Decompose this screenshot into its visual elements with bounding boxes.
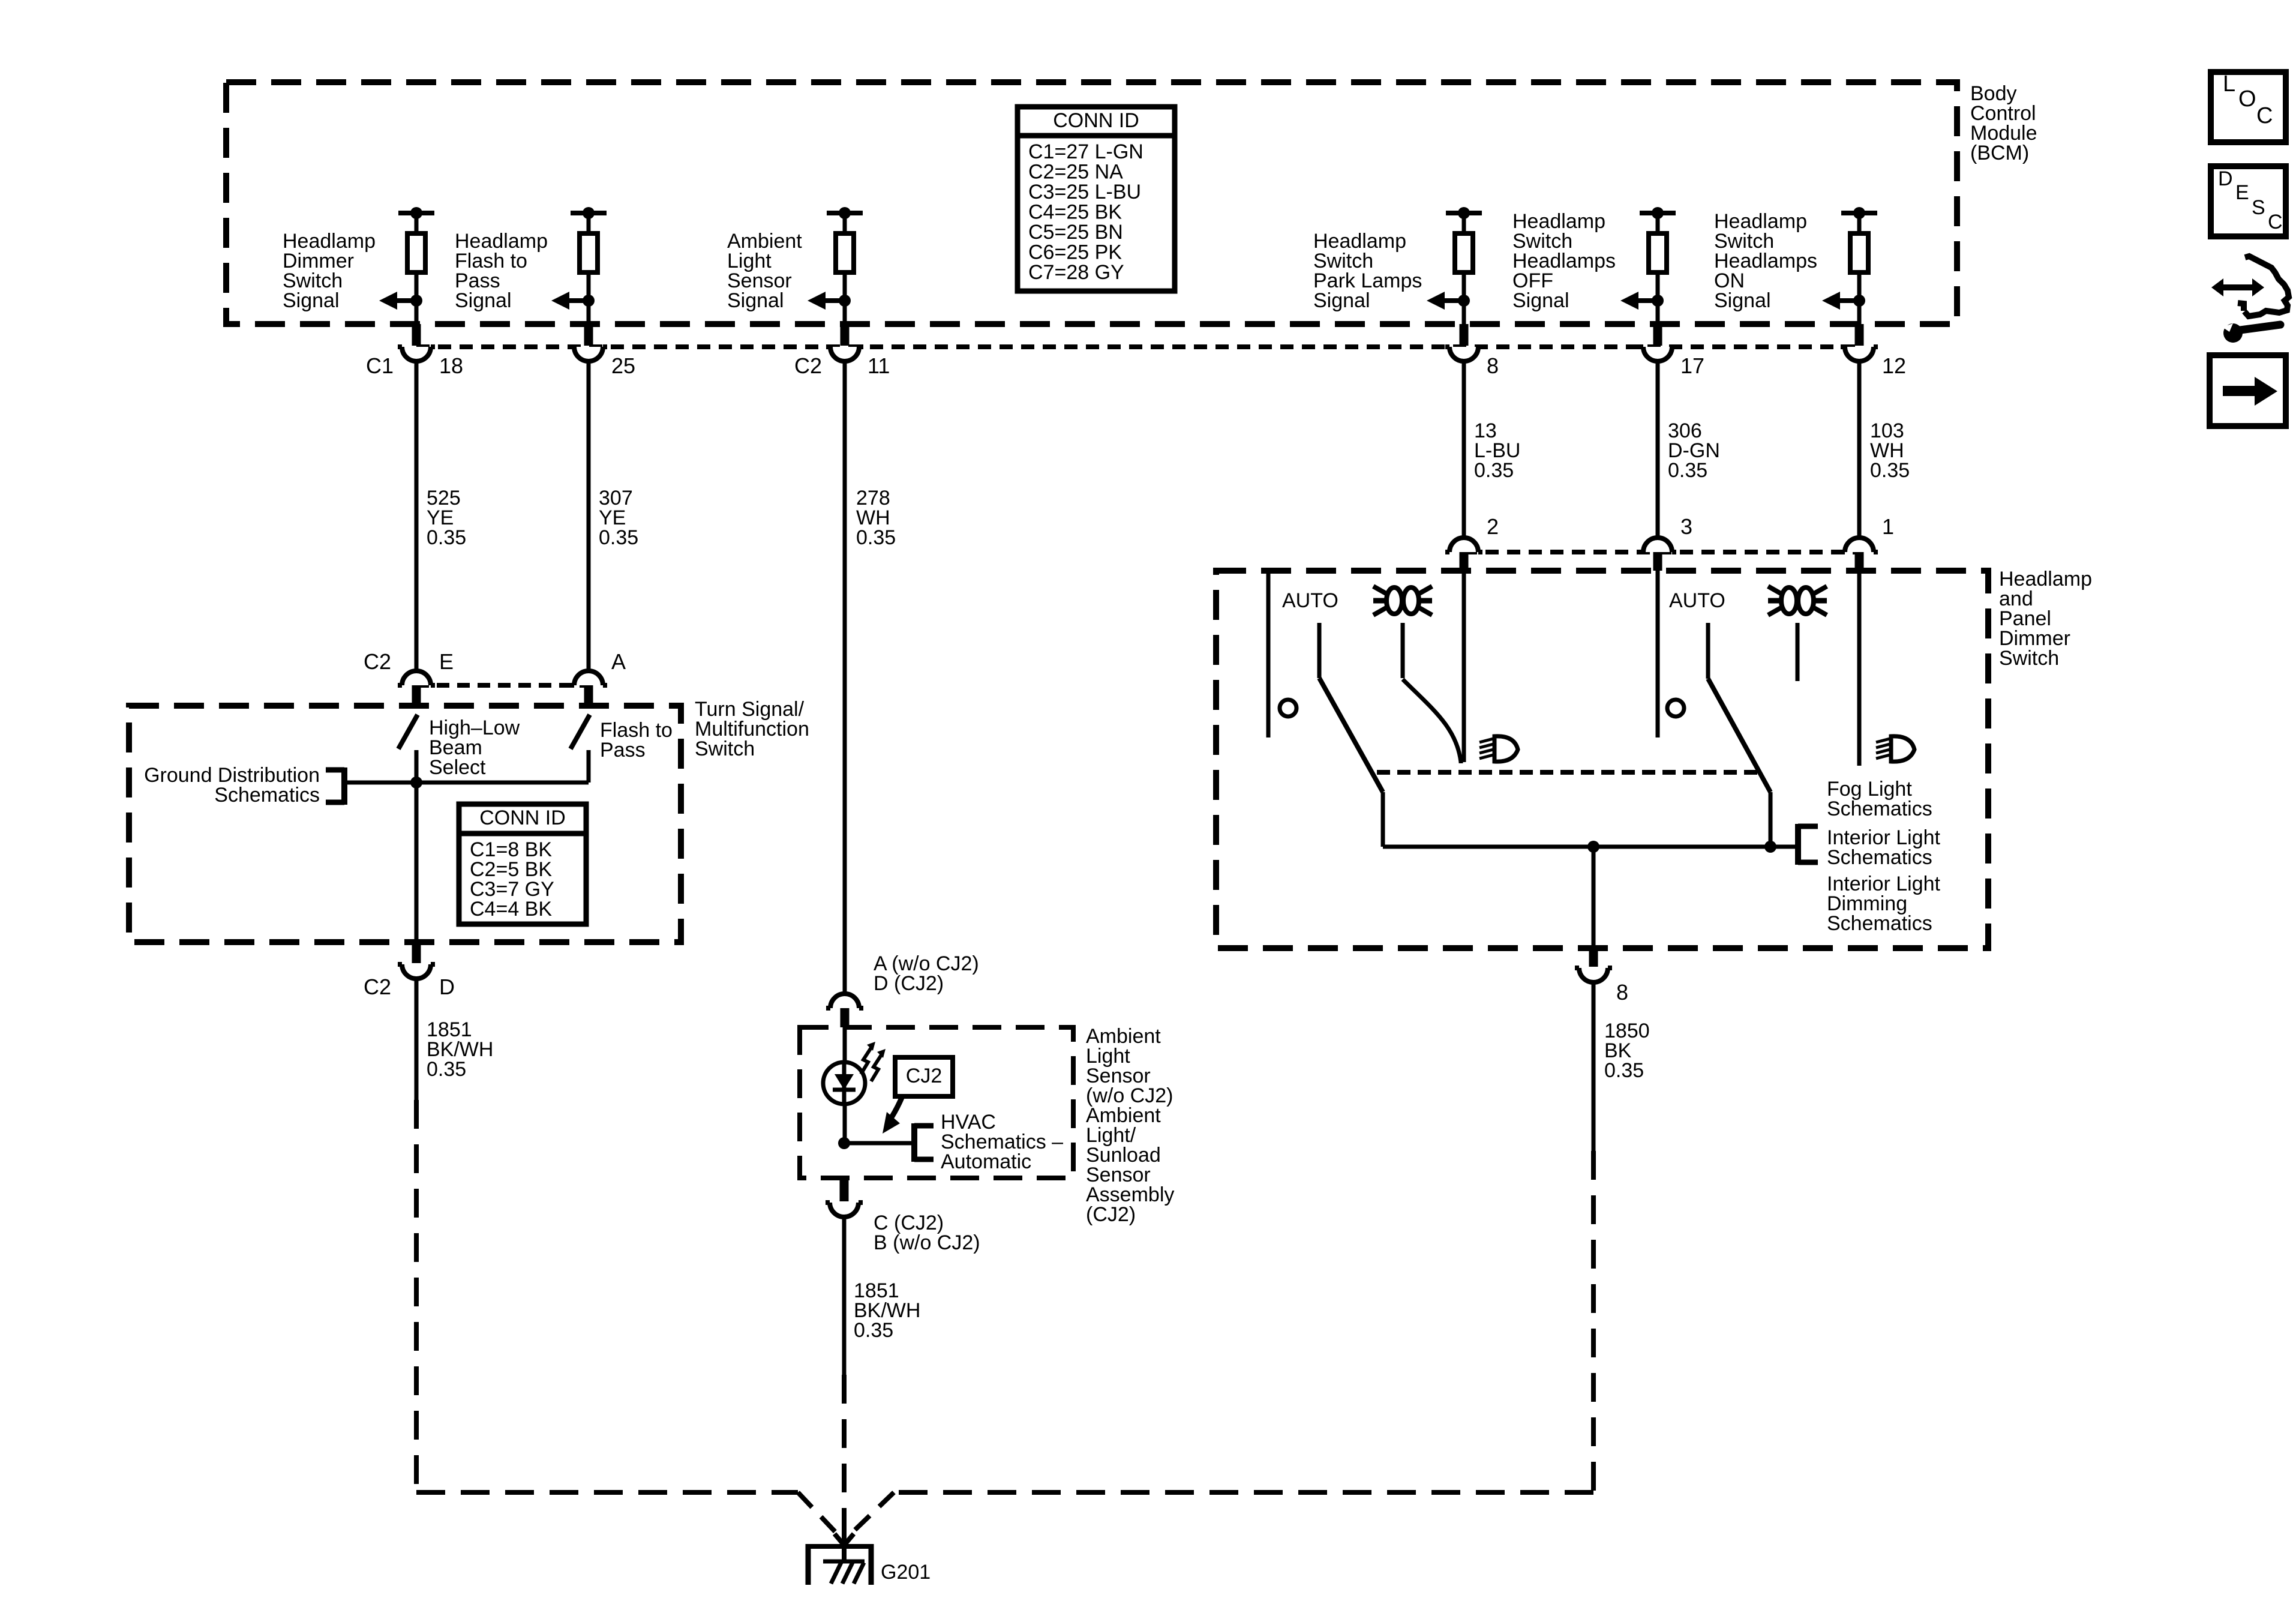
AUTO contact post (left) <box>1317 623 1322 678</box>
svg-text:(CJ2): (CJ2) <box>1086 1203 1136 1226</box>
connector pin 18 at BCM bottom <box>398 324 435 361</box>
park lamps contact stub (left) <box>1401 623 1405 678</box>
svg-text:8: 8 <box>1616 980 1628 1005</box>
connector pin 17 at BCM bottom <box>1639 324 1676 361</box>
svg-text:C2=25 NA: C2=25 NA <box>1028 161 1123 184</box>
label: Turn Signal/Multifunction Switch <box>695 698 809 760</box>
svg-text:AUTO: AUTO <box>1669 589 1725 612</box>
wire: flash to pass lower contact <box>587 750 591 782</box>
svg-text:0.35: 0.35 <box>854 1319 893 1342</box>
Ambient Light Sensor dashed box <box>800 1027 1073 1178</box>
CONN ID table (multifunction switch connectors) <box>459 804 586 924</box>
connector pin 8 (below dimmer switch) <box>1575 948 1612 982</box>
svg-text:C2: C2 <box>364 975 391 999</box>
next-page arrow icon box <box>2210 355 2286 426</box>
svg-text:D (CJ2): D (CJ2) <box>874 972 944 995</box>
svg-text:D: D <box>439 975 455 999</box>
label: Headlamp Switch Headlamps ON Signal <box>1714 210 1817 312</box>
off-page bracket: Interior Light Schematics <box>1798 824 1818 865</box>
label: High-Low Beam Select <box>429 716 520 779</box>
dotted connector face line (C2 E-A) <box>416 683 589 688</box>
svg-text:Signal: Signal <box>1512 289 1569 312</box>
CONN ID table (BCM connectors) <box>1018 107 1175 291</box>
signal tap arrow (headlamp flash to pass signal) <box>551 292 595 310</box>
park lamps icon (left) <box>1373 586 1432 615</box>
switch blade: flash to pass <box>571 715 590 749</box>
pin label 8 <box>1487 353 1499 378</box>
svg-text:Schematics: Schematics <box>1827 846 1932 869</box>
svg-text:11: 11 <box>868 353 890 378</box>
label: AUTO (left) <box>1282 589 1338 612</box>
svg-text:Signal: Signal <box>283 289 340 312</box>
label: Flash to Pass <box>600 719 673 761</box>
svg-text:E: E <box>2235 181 2249 204</box>
signal tap arrow (headlamp switch headlamps on signal) <box>1822 292 1865 310</box>
signal tap arrow (headlamp switch headlamps off signal) <box>1620 292 1664 310</box>
vehicle diagnostic icon (car outline, double arrow, wrench) <box>2211 256 2289 343</box>
label: Ground Distribution Schematics <box>144 764 320 806</box>
resistor (headlamp switch headlamps off signal) <box>1640 207 1676 324</box>
wire 307 YE 0.35 <box>589 361 638 671</box>
svg-text:12: 12 <box>1882 353 1906 378</box>
DESC icon box <box>2211 166 2286 236</box>
label: Fog Light Schematics <box>1827 778 1932 820</box>
svg-text:Switch: Switch <box>1999 647 2059 670</box>
wire from collector to pin 8 <box>1592 847 1596 948</box>
ground collector wire inside dimmer switch <box>1383 845 1798 849</box>
wire 278 WH 0.35 <box>845 361 896 994</box>
wire (dashed ground run, center) <box>842 1375 847 1531</box>
switch blade (headlamps on signal) <box>1708 679 1770 847</box>
dotted connector face line (BCM bottom connectors C1/C2) <box>416 344 1859 349</box>
dimmer switch OFF contact post (pin 3) <box>1656 571 1660 737</box>
label: HVAC Schematics - Automatic <box>941 1111 1063 1173</box>
connector pin 11 at BCM bottom <box>826 324 863 361</box>
svg-text:C: C <box>2268 211 2283 233</box>
resistor (ambient light sensor signal) <box>827 207 863 324</box>
svg-text:Signal: Signal <box>455 289 512 312</box>
svg-text:Select: Select <box>429 756 486 779</box>
label: Headlamp Dimmer Switch Signal <box>283 230 376 312</box>
svg-text:17: 17 <box>1680 353 1704 378</box>
CJ2 callout box <box>895 1057 953 1096</box>
switch blade (park lamps signal) <box>1319 678 1383 847</box>
off-page bracket: HVAC Schematics - Automatic <box>914 1123 934 1162</box>
wire 13 L-BU 0.35 <box>1464 361 1520 538</box>
junction (ground wire) <box>1587 841 1599 853</box>
connector pins A (w/o CJ2) / D (CJ2) <box>826 994 863 1027</box>
wire 1850 BK 0.35 <box>1593 982 1650 1151</box>
svg-text:Switch: Switch <box>695 737 755 760</box>
off-page bracket: Ground Distribution Schematics <box>326 767 344 805</box>
Headlamp and Panel Dimmer Switch dashed box <box>1216 571 1988 948</box>
svg-text:AUTO: AUTO <box>1282 589 1338 612</box>
svg-text:0.35: 0.35 <box>427 526 466 549</box>
detent circle (left) <box>1280 700 1296 716</box>
connector pin E (turn signal/multifunction switch) <box>398 671 435 706</box>
dotted connector face line (dimmer switch pins 2/3/1) <box>1464 550 1859 554</box>
label: Headlamp Flash to Pass Signal <box>455 230 548 312</box>
CJ2 callout arrow <box>883 1096 902 1134</box>
label: Headlamp Switch Park Lamps Signal <box>1313 230 1422 312</box>
Body Control Module (BCM) dashed box <box>226 82 1957 324</box>
svg-text:C6=25 PK: C6=25 PK <box>1028 241 1122 264</box>
park lamps icon (right) <box>1768 586 1827 615</box>
wire to HVAC bracket <box>844 1141 912 1146</box>
label: Interior Light Schematics <box>1827 826 1941 869</box>
resistor (headlamp flash to pass signal) <box>571 207 607 324</box>
label: Interior Light Dimming Schematics <box>1827 873 1941 935</box>
headlamp icon (right) <box>1876 736 1914 761</box>
incident light arrows <box>861 1042 886 1081</box>
wire 306 D-GN 0.35 <box>1658 361 1720 538</box>
svg-text:C7=28 GY: C7=28 GY <box>1028 261 1124 284</box>
label: AUTO (right) <box>1669 589 1725 612</box>
park lamps contact stub (right) <box>1796 623 1800 681</box>
svg-text:A: A <box>611 649 626 674</box>
wire 525 YE 0.35 <box>416 361 466 671</box>
headlamp icon (left) <box>1479 736 1518 761</box>
resistor (headlamp switch park lamps signal) <box>1446 207 1482 324</box>
resistor (headlamp switch headlamps on signal) <box>1841 207 1877 324</box>
svg-text:C2: C2 <box>794 353 822 378</box>
pin label 12 <box>1882 353 1906 378</box>
connector pin 2 (headlamp and panel dimmer switch) <box>1445 538 1482 571</box>
headlamps contact wire (pin 2) <box>1462 571 1466 762</box>
wire 1851 BK/WH 0.35 (from dimmer switch) <box>416 979 493 1100</box>
svg-text:L: L <box>2223 71 2235 97</box>
svg-text:C2: C2 <box>364 649 391 674</box>
wire 1851 BK/WH 0.35 (sensor to ground) <box>844 1217 920 1375</box>
svg-text:D: D <box>2218 167 2233 190</box>
connector pin A (turn signal/multifunction switch) <box>570 671 607 706</box>
connector pin 3 (headlamp and panel dimmer switch) <box>1639 538 1676 571</box>
svg-text:0.35: 0.35 <box>599 526 638 549</box>
svg-text:Signal: Signal <box>1313 289 1370 312</box>
svg-text:0.35: 0.35 <box>1668 459 1707 482</box>
svg-text:CJ2: CJ2 <box>906 1065 942 1087</box>
svg-text:C5=25 BN: C5=25 BN <box>1028 221 1123 244</box>
junction (HVAC tap) <box>838 1137 850 1149</box>
signal tap arrow (headlamp dimmer switch signal) <box>379 292 422 310</box>
svg-text:2: 2 <box>1487 514 1499 539</box>
wire: high-low beam select lower contact <box>415 750 419 942</box>
svg-text:18: 18 <box>439 353 463 378</box>
signal tap arrow (headlamp switch park lamps signal) <box>1427 292 1470 310</box>
wire: ground bus inside multifunction switch <box>347 781 589 785</box>
svg-text:C4=25 BK: C4=25 BK <box>1028 201 1122 224</box>
svg-text:G201: G201 <box>881 1561 931 1584</box>
ground arrow <box>835 1531 854 1560</box>
svg-text:S: S <box>2252 196 2265 219</box>
svg-text:C3=25 L-BU: C3=25 L-BU <box>1028 181 1141 203</box>
svg-text:B (w/o CJ2): B (w/o CJ2) <box>874 1231 980 1254</box>
svg-text:0.35: 0.35 <box>1870 459 1910 482</box>
LOC icon box <box>2211 71 2286 142</box>
svg-text:C1=27 L-GN: C1=27 L-GN <box>1028 140 1144 163</box>
junction (blade to collector) <box>1764 841 1776 853</box>
svg-text:Schematics: Schematics <box>1827 797 1932 820</box>
connector pin 12 at BCM bottom <box>1841 324 1878 361</box>
svg-text:E: E <box>439 649 454 674</box>
pin label 18 <box>366 353 463 378</box>
switch blade: high-low beam select <box>398 715 418 749</box>
svg-text:3: 3 <box>1680 514 1692 539</box>
svg-text:0.35: 0.35 <box>1604 1059 1644 1082</box>
label: Ambient Light Sensor Signal <box>727 230 802 312</box>
ground symbol G201 <box>806 1544 874 1585</box>
wire (dashed ground run, right) <box>847 1151 1593 1537</box>
svg-text:0.35: 0.35 <box>1474 459 1514 482</box>
pin label 11 <box>794 353 890 378</box>
svg-text:Signal: Signal <box>727 289 784 312</box>
AUTO contact post (right) <box>1706 623 1710 679</box>
junction (ground bus / beam select) <box>410 776 422 788</box>
wiper arc (park lamps to headlamps contact) <box>1403 679 1461 763</box>
detent circle (right) <box>1667 700 1684 716</box>
svg-text:8: 8 <box>1487 353 1499 378</box>
mechanical link (dotted) between blades <box>1377 770 1758 775</box>
label: G201 <box>881 1561 931 1584</box>
svg-text:Schematics: Schematics <box>214 784 320 806</box>
svg-text:CONN ID: CONN ID <box>479 806 566 829</box>
signal tap arrow (ambient light sensor signal) <box>808 292 851 310</box>
connector pin 8 at BCM bottom <box>1445 324 1482 361</box>
svg-text:0.35: 0.35 <box>427 1058 466 1081</box>
Turn Signal/Multifunction Switch dashed box <box>129 706 681 942</box>
svg-text:O: O <box>2238 86 2256 112</box>
svg-text:25: 25 <box>611 353 635 378</box>
photodiode (ambient light sensor element) <box>823 1027 865 1143</box>
BCM label <box>1970 82 2037 164</box>
connector C2 pin D (below multifunction switch) <box>398 942 435 979</box>
svg-text:Pass: Pass <box>600 739 646 761</box>
connector pins C (CJ2) / B (w/o CJ2) <box>826 1178 863 1217</box>
pin label 17 <box>1680 353 1704 378</box>
svg-text:0.35: 0.35 <box>856 526 896 549</box>
svg-text:Schematics: Schematics <box>1827 912 1932 935</box>
wire (dashed ground run, left) <box>416 1100 841 1537</box>
connector pin 1 (headlamp and panel dimmer switch) <box>1841 538 1878 571</box>
connector pin 25 at BCM bottom <box>570 324 607 361</box>
svg-text:C: C <box>2256 103 2273 128</box>
label: Ambient Light Sensor (w/o CJ2) / Ambient Light/Sunload Sensor Assembly (CJ2) <box>1086 1025 1174 1226</box>
svg-text:CONN ID: CONN ID <box>1053 109 1139 132</box>
dimmer switch left pole (park lamps) contact post <box>1266 571 1271 737</box>
svg-text:Automatic: Automatic <box>941 1150 1031 1173</box>
headlamps on contact wire (pin 1) <box>1857 571 1862 766</box>
label: Headlamp and Panel Dimmer Switch <box>1999 568 2092 670</box>
pin label 25 <box>611 353 635 378</box>
svg-text:(BCM): (BCM) <box>1970 142 2029 164</box>
svg-text:C4=4 BK: C4=4 BK <box>470 898 552 921</box>
label: Headlamp Switch Headlamps OFF Signal <box>1512 210 1616 312</box>
svg-text:1: 1 <box>1882 514 1894 539</box>
svg-text:C1: C1 <box>366 353 394 378</box>
svg-text:Signal: Signal <box>1714 289 1771 312</box>
wire 103 WH 0.35 <box>1859 361 1910 538</box>
resistor (headlamp dimmer switch signal) <box>398 207 434 324</box>
